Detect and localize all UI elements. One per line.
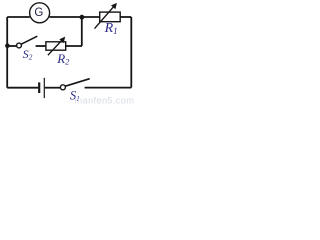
switch S1 pivot circle	[60, 85, 65, 90]
resistor R2	[46, 42, 66, 50]
wire battery to switch	[45, 87, 60, 89]
wire right vertical	[130, 17, 132, 88]
node junction dot top	[80, 15, 85, 20]
wire S2 to R2	[36, 45, 46, 47]
wire stub to S2	[7, 45, 16, 47]
wire R2 to mid vertical	[66, 45, 82, 47]
svg-text:S2: S2	[23, 47, 33, 62]
R2 slider arrow	[48, 40, 63, 56]
R1 slider arrow	[95, 6, 115, 29]
switch S2 blade	[21, 36, 37, 44]
wire bottom left	[7, 87, 38, 89]
svg-text:G: G	[34, 7, 43, 19]
switch S1 blade	[65, 79, 90, 87]
svg-text:manfen5.com: manfen5.com	[75, 95, 135, 105]
wire R1 to right corner	[120, 16, 131, 18]
node junction dot left	[5, 43, 10, 48]
galvanometer G	[30, 3, 50, 23]
svg-text:R1: R1	[104, 21, 118, 36]
battery short plate (left, thick)	[38, 82, 40, 93]
switch S2 pivot circle	[17, 43, 22, 48]
resistor R1	[100, 12, 121, 22]
wire top-right horizontal	[49, 16, 99, 18]
wire mid vertical up to node	[81, 17, 83, 46]
battery long plate (right, thin)	[43, 78, 45, 98]
svg-text:R2: R2	[56, 51, 70, 67]
wire bottom right	[85, 87, 132, 89]
wire left vertical	[6, 17, 8, 88]
wire top-left horizontal	[7, 16, 30, 18]
